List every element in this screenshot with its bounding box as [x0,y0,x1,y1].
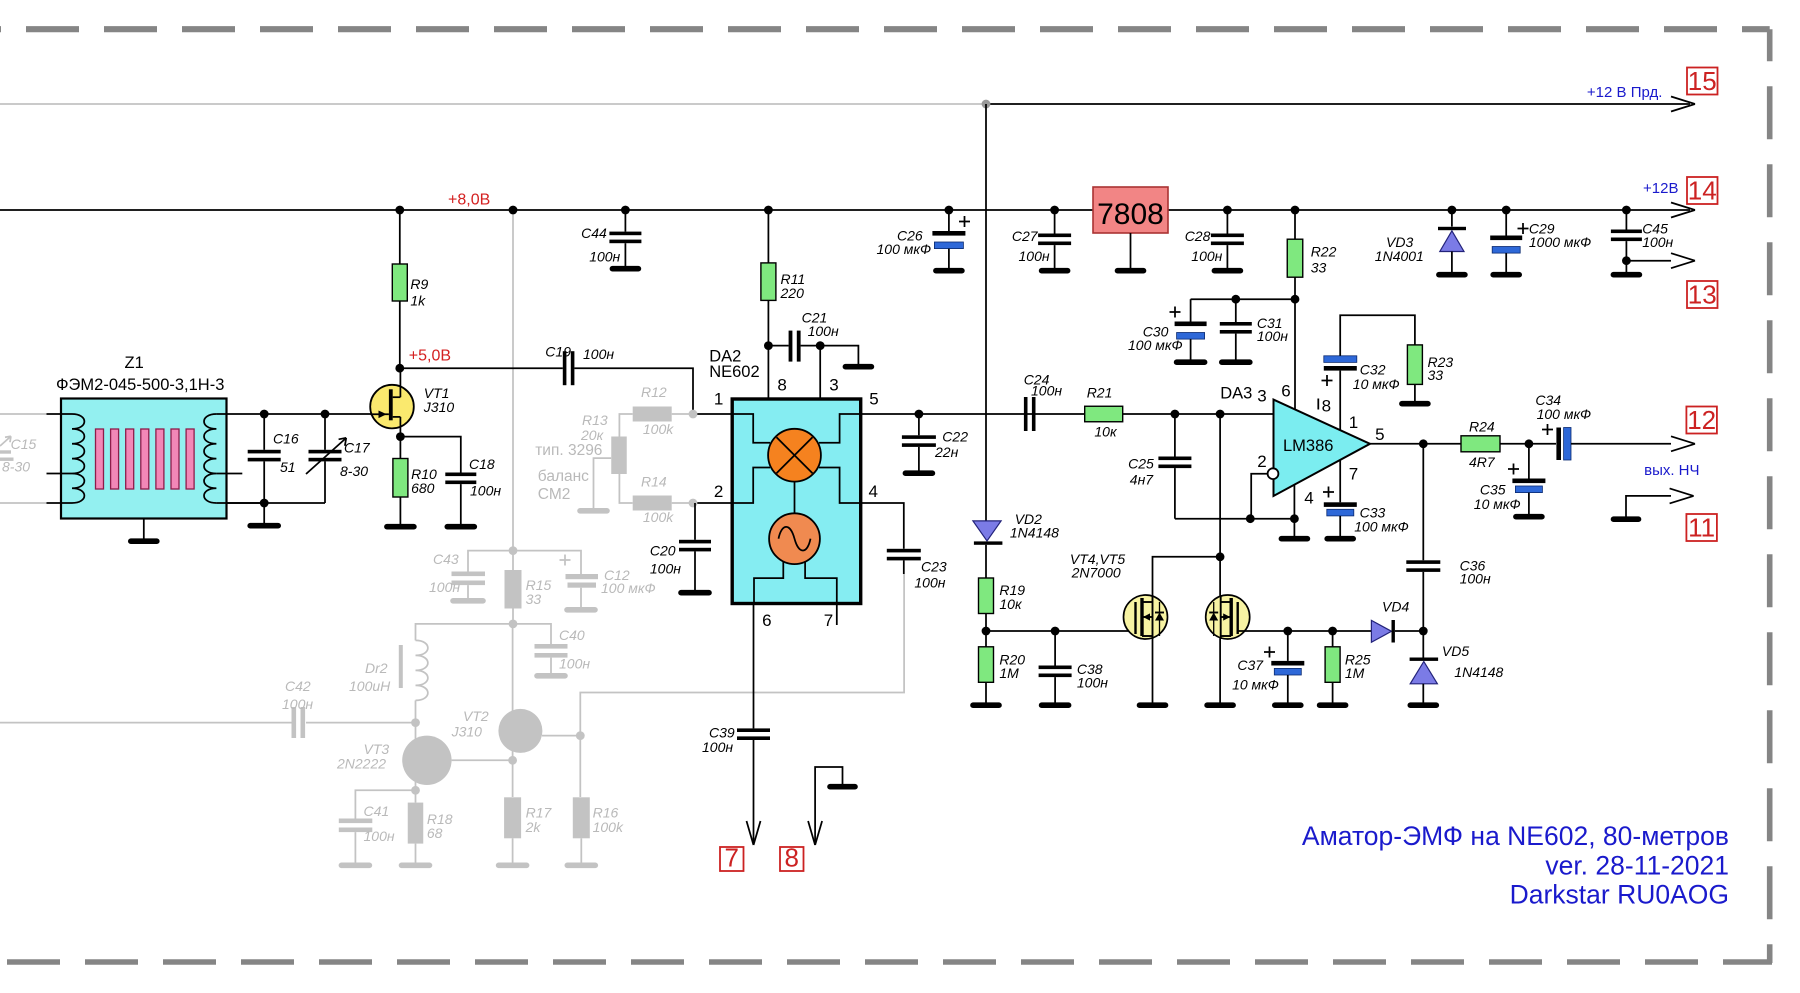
ground for C16 node [263,503,265,523]
wire mute gate line left [986,630,1136,632]
svg-text:100 мкФ: 100 мкФ [1537,406,1592,422]
svg-text:C40: C40 [559,627,585,643]
svg-text:вых. НЧ: вых. НЧ [1644,462,1699,479]
wire to C12 [513,551,581,574]
connector box 7 [720,847,744,871]
svg-text:100н: 100н [364,828,395,844]
capacitor C33 electrolytic [1339,460,1341,502]
wire R13 wiper to ground [594,458,612,508]
svg-text:6: 6 [762,611,771,630]
node junction TX feed grey [982,100,991,109]
capacitor C32 electrolytic [1324,356,1357,363]
node junction pin1 grey [689,410,698,419]
svg-text:1N4148: 1N4148 [1010,525,1059,541]
svg-text:2: 2 [1257,452,1266,471]
capacitor C27 [1054,210,1056,234]
resistor R18 [415,790,417,802]
svg-text:1: 1 [1349,413,1358,432]
ground for C29 [1493,272,1519,278]
capacitor C43 [452,572,486,577]
wire grey Z1 input bottom [0,502,47,504]
ground for C40 [537,673,565,679]
svg-text:100н: 100н [914,575,945,591]
diode VD4 [1371,620,1391,642]
LM386 pin4 wire [1293,485,1295,536]
svg-text:14: 14 [1688,176,1717,206]
wire to C41 [355,790,415,818]
svg-text:100н: 100н [1257,328,1288,344]
ground for C30 [1177,359,1205,365]
wire VT4 drain [1153,557,1221,596]
ground for C22 [905,470,932,476]
svg-text:10к: 10к [1094,424,1118,440]
svg-text:100k: 100k [593,819,624,835]
svg-text:R22: R22 [1311,244,1337,260]
node junction C22 [915,410,924,419]
svg-text:2k: 2k [525,819,542,835]
svg-text:C15: C15 [11,436,37,452]
svg-text:R24: R24 [1469,419,1495,435]
svg-text:8-30: 8-30 [2,459,30,475]
filter Z1 body [61,399,227,519]
svg-text:1k: 1k [410,293,426,309]
ground for 7808 [1118,268,1144,274]
ground for R18 [402,862,430,868]
svg-text:4: 4 [869,482,878,501]
svg-text:1M: 1M [1345,665,1365,681]
svg-text:15: 15 [1688,66,1717,96]
ground for C33 [1327,536,1353,542]
svg-text:100н: 100н [702,739,733,755]
ground for C37 [1275,702,1301,708]
svg-text:68: 68 [427,825,443,841]
ground for R20 [973,702,999,708]
svg-text:DA3: DA3 [1220,385,1252,403]
resistor R9 [399,210,401,264]
svg-text:Dr2: Dr2 [365,660,388,676]
resistor R10 [399,437,401,459]
transistor VT2 J310 [452,759,513,761]
capacitor C35 electrolytic [1528,444,1530,479]
svg-text:2N2222: 2N2222 [336,756,386,772]
svg-text:100н: 100н [1460,571,1491,587]
trimmer capacitor C15 at left edge [0,450,11,453]
svg-text:100н: 100н [1642,234,1673,250]
ground for C21 [845,364,871,370]
main +12V/+8V rail [0,209,1093,211]
svg-text:Darkstar RU0AOG: Darkstar RU0AOG [1510,880,1729,910]
svg-text:100н: 100н [1019,248,1050,264]
node junction C45 [1622,206,1631,215]
svg-text:C17: C17 [344,440,371,456]
voltage regulator 7808 [1093,187,1168,233]
svg-text:ФЭМ2-045-500-3,1Н-3: ФЭМ2-045-500-3,1Н-3 [56,376,224,394]
svg-text:100 мкФ: 100 мкФ [1354,519,1409,535]
node junction mute drains [1216,410,1225,419]
node junction C28 [1223,206,1232,215]
capacitor C29 electrolytic [1505,210,1507,236]
svg-text:8: 8 [785,843,799,873]
wire connector 8 with ground [815,767,842,845]
svg-text:R12: R12 [641,384,667,400]
svg-text:8-30: 8-30 [340,463,368,479]
wire grey balance net to C23 bottom [903,565,905,575]
ground for R25 [1320,702,1346,708]
ground for R17 [499,862,527,868]
capacitor C34 electrolytic series [1556,428,1561,461]
node junction C26 [945,206,954,215]
svg-text:4R7: 4R7 [1469,454,1496,470]
ground for VD5 [1410,702,1436,708]
svg-text:100н: 100н [1077,675,1108,691]
resistor R14 [619,474,632,503]
ground for C38 [1042,702,1069,708]
svg-text:10 мкФ: 10 мкФ [1232,677,1279,693]
node junction pin4 gnd [1290,514,1299,523]
resistor R24 [1461,436,1500,452]
wire mute gate line right [1238,630,1372,632]
node junction C29 [1502,206,1511,215]
svg-text:100н: 100н [282,696,313,712]
svg-text:10 мкФ: 10 мкФ [1474,496,1521,512]
connector box 14 [1687,177,1718,204]
wire mute feed vertical [985,104,987,521]
resistor R23 [1407,345,1422,385]
wire C19 to NE602 pin1 [574,368,732,414]
capacitor C18 [400,437,460,473]
svg-text:100н: 100н [429,579,460,595]
capacitor C38 [1054,631,1056,666]
ground for C31 [1222,359,1250,365]
sheet border dashed frame [0,26,1770,32]
svg-text:6: 6 [1281,382,1290,401]
svg-text:2: 2 [714,482,723,501]
node junction pin2 gnd [1246,514,1255,523]
wire grey rail branch x=513 [512,211,514,551]
wire VT5 drain to signal [1219,414,1221,596]
wire +5V node to C19 [400,367,563,369]
svg-text:1N4001: 1N4001 [1375,248,1424,264]
svg-text:C16: C16 [273,431,299,447]
svg-text:Z1: Z1 [125,354,144,372]
resistor R19 [985,545,987,578]
node junction +5.0V [395,364,404,373]
ground for C26 [936,268,962,274]
wire VT5 source to ground [1219,639,1221,703]
svg-text:100н: 100н [650,561,681,577]
svg-text:7: 7 [1349,465,1358,484]
svg-text:100uH: 100uH [349,678,391,694]
svg-text:C20: C20 [650,543,676,559]
svg-text:C25: C25 [1128,456,1154,472]
IC DA3 LM386 body [1274,400,1371,496]
connector box 11 [1686,514,1717,541]
node junction drains [1216,552,1225,561]
resistor R20 [979,647,994,683]
node junction pin2 grey [689,499,698,508]
capacitor C40 [535,644,568,649]
svg-text:4н7: 4н7 [1130,472,1154,488]
wire VFO input line with capacitor C42 [0,722,292,724]
svg-text:C27: C27 [1012,228,1039,244]
connector box 13 [1687,281,1718,308]
capacitor C12 electrolytic [560,559,571,561]
capacitor C39 [737,728,770,732]
svg-text:C22: C22 [942,429,968,445]
svg-text:100 мкФ: 100 мкФ [1128,337,1183,353]
svg-text:100н: 100н [1031,383,1062,399]
node junction VT1 source [396,432,405,441]
svg-text:C41: C41 [364,803,390,819]
arrow to connector 15 net +12V TX [1671,97,1695,105]
svg-text:11: 11 [1688,513,1715,543]
transistor VT5 2N7000 [1206,595,1250,639]
svg-text:+5,0В: +5,0В [409,348,451,365]
svg-text:C18: C18 [469,456,495,472]
svg-text:7808: 7808 [1097,198,1164,231]
resistor R17 [504,797,521,838]
svg-text:J310: J310 [451,724,483,740]
svg-text:R14: R14 [641,474,667,490]
node junction pin8 C21 [764,341,773,350]
node junction C27 [1050,206,1059,215]
Z1 left winding [47,413,73,415]
ground for C45 [1613,272,1639,278]
svg-text:100н: 100н [470,483,501,499]
svg-text:100н: 100н [589,249,620,265]
capacitor C25 [1174,414,1176,457]
svg-text:10к: 10к [999,596,1023,612]
capacitor C42 [292,707,297,738]
resistor R15 [512,551,514,570]
svg-text:3: 3 [1257,387,1266,406]
resistor R12 [619,414,632,437]
wire to C43 [468,551,513,572]
ground for C28 [1214,268,1240,274]
Z1 case ground [143,519,145,539]
svg-text:C19: C19 [545,344,571,360]
svg-text:C43: C43 [433,551,459,567]
capacitor C26 electrolytic [948,210,950,231]
svg-text:10 мкФ: 10 мкФ [1353,376,1400,392]
wire to C40 [513,624,551,644]
svg-text:8: 8 [1322,397,1331,416]
ground for R16 [567,862,595,868]
trimmer capacitor C17 [324,414,326,450]
svg-text:12: 12 [1687,405,1716,435]
svg-text:C28: C28 [1185,228,1211,244]
svg-text:VD5: VD5 [1442,643,1469,659]
wire NE602 pin6 to C39 [753,603,755,728]
svg-text:Аматор-ЭМФ на NE602, 80-метров: Аматор-ЭМФ на NE602, 80-метров [1302,821,1729,851]
arrow to connector 7 [747,821,754,845]
svg-text:100н: 100н [583,346,614,362]
svg-text:R13: R13 [582,412,608,428]
svg-text:VT2: VT2 [463,708,489,724]
wire connector 11 with ground [1626,496,1671,517]
NE602 internal oscillator traces [754,561,783,603]
resistor R11 [767,210,769,263]
NE602 oscillator circle [794,482,796,514]
svg-text:ver. 28-11-2021: ver. 28-11-2021 [1545,851,1729,881]
wire C21 right to ground [820,346,858,364]
node junction C16 top [260,410,269,419]
node junction C35 [1525,439,1534,448]
svg-text:R21: R21 [1087,385,1113,401]
capacitor C22 [918,414,920,435]
svg-text:тип. 3296: тип. 3296 [535,442,602,459]
7808 ground pin [1130,233,1132,268]
capacitor C45 [1625,210,1627,230]
node junction Vcc LM386 [1291,295,1300,304]
node junction C16 bottom [260,499,269,508]
ground for VT4 [1140,702,1166,708]
capacitor C21 series [789,331,793,362]
wire pin8 [767,346,769,399]
wire Z1 out to C16 C17 VT1 gate [264,413,370,415]
node junction pin3 C21 [801,345,821,347]
node junction C43/R15/C12 [509,546,518,555]
ground for R13 wiper [580,508,607,514]
svg-text:33: 33 [1311,260,1327,276]
svg-text:3: 3 [829,376,838,395]
ground for C35 [1516,514,1542,520]
svg-text:СМ2: СМ2 [538,486,571,503]
connector box 12 [1686,407,1717,434]
wire C16 C17 bottom node [227,502,326,504]
transistor VT4 2N7000 [1124,595,1168,639]
svg-text:NE602: NE602 [709,363,759,381]
ground for C41 [341,862,369,868]
ground for C18 [447,524,474,530]
diode VD2 1N4148 [973,521,1001,541]
node junction R11 top [764,206,773,215]
ground for LM386 pin4 [1281,536,1307,542]
resistor R16 [573,797,590,838]
svg-text:8: 8 [777,376,786,395]
svg-text:100 мкФ: 100 мкФ [601,580,656,596]
node junction C38 [1051,627,1060,636]
ground for R23 [1402,401,1428,407]
svg-text:J310: J310 [423,399,455,415]
wire to Dr2 [416,624,514,641]
net +12V TX grey feed wire [0,103,986,105]
arrow to connector 8 [808,821,815,845]
node junction C25 [1171,410,1180,419]
resistor R21 [1085,406,1123,422]
svg-text:5: 5 [1375,425,1384,444]
inductor Dr2 100uH [416,640,428,700]
wire pin3 [819,346,821,399]
arrow to connector 13 ground return [1626,260,1671,262]
ground for VD3 [1439,272,1465,278]
svg-text:7: 7 [725,843,739,873]
capacitor C23 [887,549,921,553]
diode VD3 1N4001 [1451,210,1453,227]
resistor R25 [1332,631,1334,647]
node junction VD5 [1419,627,1428,636]
capacitor C16 [263,414,265,450]
svg-text:220: 220 [780,285,805,301]
capacitor C20 [694,503,696,540]
wire grey Z1 input top [0,413,47,415]
node junction R22 top [1291,206,1300,215]
capacitor C37 electrolytic [1287,631,1289,661]
node junction R15/C40/Dr2 [512,609,514,624]
wire C32 to R23 [1340,315,1415,356]
capacitor C19 series [563,351,567,385]
LM386 pin number 8 stub [1317,399,1319,410]
node junction pin13 tap [1622,256,1631,265]
ground for R10 [387,524,414,530]
node junction C37 [1283,627,1292,636]
svg-text:C23: C23 [921,559,947,575]
wire VT2 drain to R16 and output [542,735,580,737]
svg-text:680: 680 [411,480,435,496]
svg-text:100k: 100k [643,509,674,525]
svg-text:13: 13 [1688,280,1717,310]
resistor R22 [1294,210,1296,239]
trimmer resistor R13 20k type 3296 [611,437,627,475]
node junction R9 top [395,206,404,215]
Z1 resonator plates [96,429,104,489]
ground for C12 [567,607,595,613]
svg-text:7: 7 [824,611,833,630]
wire NE602 pin5 output line [861,413,1085,415]
capacitor C31 [1235,299,1237,322]
Z1 right winding [216,413,264,415]
connector box 8 [780,847,804,871]
wire VT4 source to ground [1152,639,1154,703]
svg-text:33: 33 [1428,367,1444,383]
node junction VT2/R17 [508,756,517,765]
arrow to connector 14 net +12V [1671,203,1695,211]
ground for C20 [681,590,709,596]
node junction VT3 emitter [415,778,417,790]
svg-text:+12В: +12В [1643,180,1678,197]
NE602 pin7 stub [836,603,838,625]
capacitor C36 [1422,444,1424,561]
svg-text:R9: R9 [410,276,428,292]
capacitor C41 [339,819,373,824]
node junction C36 top [1419,439,1428,448]
svg-text:+8,0В: +8,0В [448,192,490,209]
node junction R19 R20 gate [982,627,991,636]
transistor VT3 2N2222 [415,723,417,745]
capacitor C24 series [1024,397,1028,431]
svg-text:баланс: баланс [538,468,589,485]
ground for C27 [1042,268,1068,274]
svg-text:1: 1 [714,390,723,409]
svg-text:4: 4 [1304,489,1313,508]
svg-text:22н: 22н [934,444,959,460]
svg-text:100н: 100н [808,323,839,339]
svg-text:51: 51 [280,459,296,475]
node junction C44 [621,206,630,215]
svg-text:1N4148: 1N4148 [1454,664,1503,680]
svg-text:2N7000: 2N7000 [1071,565,1121,581]
svg-text:+12 В Прд.: +12 В Прд. [1587,84,1662,101]
LM386 pin2 circle and feedback wire [1251,474,1268,519]
wire LM386 output [1370,443,1461,445]
IC DA2 NE602 body [732,399,861,604]
svg-text:20к: 20к [580,427,605,443]
node junction C17 top [321,410,330,419]
node junction R25 [1328,627,1337,636]
NE602 internal input traces [732,414,770,443]
svg-text:C44: C44 [581,225,607,241]
capacitor C44 [624,210,626,232]
